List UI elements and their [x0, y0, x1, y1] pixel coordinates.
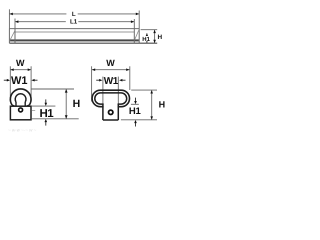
- side view: oval inner: [95, 93, 127, 104]
- front view: base hole: [19, 108, 23, 112]
- svg-text:~ w·w ~·~ w ~: ~ w·w ~·~ w ~: [8, 128, 37, 133]
- front view: hole center tick: [32, 109, 35, 111]
- front view: label H: [73, 98, 81, 110]
- label L1: [70, 19, 78, 26]
- front view: dimension line H: [65, 89, 68, 119]
- bar top edge: [9, 28, 139, 30]
- front view: extension line right (W): [30, 66, 32, 98]
- front view: H1 arrows: [45, 99, 48, 125]
- svg-text:H1: H1: [129, 106, 142, 117]
- front view: H top extension: [31, 88, 74, 90]
- dimension line L: [9, 13, 139, 16]
- bar bottom edge: [9, 42, 157, 44]
- svg-text:H: H: [159, 100, 166, 110]
- bar right cap: [134, 29, 139, 44]
- dimension line L1: [15, 20, 134, 23]
- front view: dimension W1 arrows: [4, 79, 38, 82]
- svg-text:W1: W1: [11, 75, 28, 87]
- side view: extension line right (W): [129, 66, 131, 90]
- H top extension (top view): [141, 29, 158, 31]
- side view: W1 extension / tab wall right: [117, 77, 119, 104]
- front view: ring outer arc: [10, 89, 31, 105]
- side view: extension line left (W): [91, 66, 93, 101]
- bar dark band: [10, 39, 139, 41]
- side view: tab: [103, 102, 118, 121]
- extension line left inner (L1): [14, 19, 16, 29]
- svg-text:W: W: [16, 58, 25, 68]
- front view: base: [10, 106, 31, 120]
- label L: [72, 11, 76, 18]
- front view: H1 top extension: [32, 105, 56, 107]
- extension line right inner (L1): [133, 19, 135, 29]
- side view: dimension line W: [92, 68, 130, 71]
- side view: H1 arrows: [134, 98, 137, 127]
- front view: label W: [16, 58, 25, 68]
- extension line right outer (L): [138, 11, 140, 29]
- side view: W1 extension / tab wall left: [102, 77, 104, 104]
- front view: extension line left (W): [9, 66, 11, 98]
- svg-text:W: W: [106, 58, 115, 68]
- side view: tab hole: [109, 110, 113, 114]
- svg-text:H: H: [157, 34, 162, 41]
- front view: ring tip left: [12, 105, 16, 107]
- svg-text:H1: H1: [40, 108, 55, 120]
- svg-text:W1: W1: [104, 76, 119, 87]
- side view: H top extension: [131, 89, 157, 91]
- svg-text:H: H: [73, 98, 81, 110]
- dimension line H1 (top view): [146, 33, 149, 43]
- side view: label H: [159, 100, 166, 110]
- front view: slot wall right: [24, 102, 26, 106]
- side view: label W: [106, 58, 115, 68]
- watermark: [8, 128, 37, 133]
- label H (top view): [157, 34, 162, 41]
- side view: oval outer: [92, 90, 129, 107]
- front view: label H1: [40, 108, 55, 120]
- side view: label W1: [104, 76, 119, 87]
- bar inner top edge: [15, 31, 134, 33]
- front view: H bottom extension: [32, 118, 79, 120]
- front view: ring inner arc: [15, 94, 26, 102]
- front view: slot wall left: [15, 102, 17, 106]
- side view: W1 arrows: [96, 79, 125, 82]
- bar left cap: [9, 29, 15, 44]
- extension line left outer (L): [8, 9, 10, 28]
- dimension line H (top view): [153, 30, 156, 44]
- svg-text:L1: L1: [70, 19, 78, 26]
- svg-text:H1: H1: [142, 36, 150, 43]
- front view: dimension line W: [10, 68, 31, 71]
- side view: H bottom extension: [121, 119, 157, 121]
- front view: label W1: [11, 75, 28, 87]
- svg-text:L: L: [72, 11, 76, 18]
- label H1 (top view): [142, 36, 150, 43]
- front view: ring tip right: [26, 105, 30, 107]
- side view: label H1: [129, 106, 142, 117]
- side view: dimension line H: [150, 90, 153, 120]
- side view: H1 top line: [131, 103, 139, 105]
